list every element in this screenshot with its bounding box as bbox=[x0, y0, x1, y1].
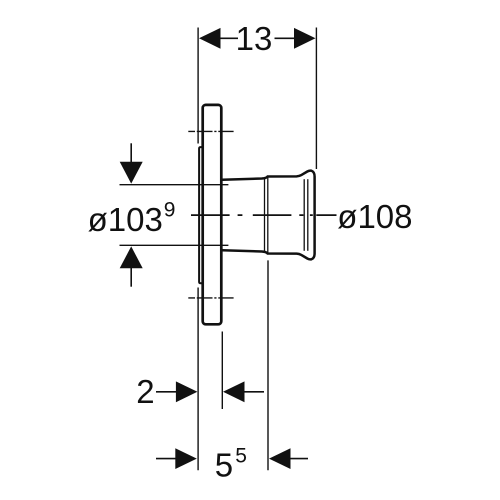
bore line top bbox=[120, 184, 229, 186]
svg-text:13: 13 bbox=[236, 20, 273, 57]
bolt hole centerline bottom bbox=[188, 297, 233, 299]
dimension 13 arrow right bbox=[275, 28, 316, 49]
svg-text:9: 9 bbox=[164, 198, 176, 221]
socket step line 2 bbox=[267, 178, 269, 253]
dimension 2 arrow left bbox=[156, 381, 197, 402]
socket outline bbox=[222, 171, 314, 260]
dimension diameter 103 arrow bottom bbox=[120, 246, 143, 286]
bore line bottom bbox=[120, 244, 229, 246]
bolt hole centerline top bbox=[188, 130, 233, 132]
dimension 5.5 arrow right bbox=[269, 448, 308, 469]
dimension diameter 103 arrow top bbox=[120, 143, 143, 183]
dimension 13 extension line left bbox=[197, 28, 199, 144]
svg-text:5: 5 bbox=[215, 446, 233, 483]
dimension 2 extension line right bbox=[221, 332, 223, 410]
dimension 5.5 extension line right bbox=[267, 260, 269, 470]
dimension 5.5 arrow left bbox=[156, 448, 197, 469]
flange body bbox=[203, 105, 222, 324]
svg-text:2: 2 bbox=[136, 373, 154, 410]
svg-text:ø103: ø103 bbox=[88, 201, 163, 238]
svg-text:5: 5 bbox=[235, 445, 247, 468]
svg-text:ø108: ø108 bbox=[337, 198, 412, 235]
dimension 2 extension line left bbox=[197, 288, 199, 471]
flange wall lip bbox=[199, 147, 203, 283]
socket step line 1 bbox=[264, 178, 266, 253]
socket mouth inner line 1 bbox=[303, 179, 305, 251]
part centerline bbox=[191, 214, 337, 216]
dimension 13 extension line right bbox=[315, 28, 317, 170]
dimension 2 arrow right bbox=[223, 381, 264, 402]
socket mouth inner line 2 bbox=[307, 179, 309, 251]
dimension 13 arrow left bbox=[199, 28, 238, 49]
